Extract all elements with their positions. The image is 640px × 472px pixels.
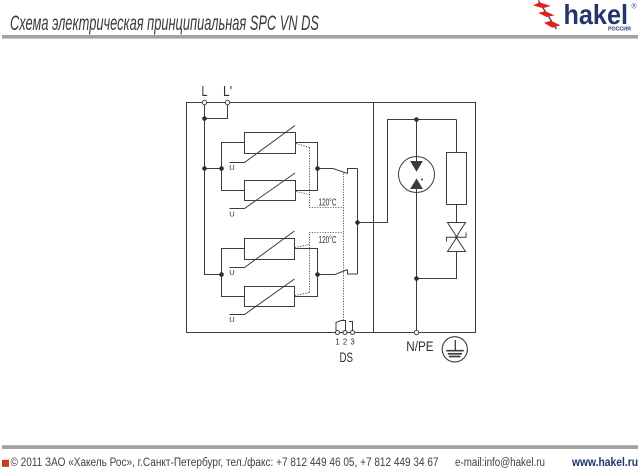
DS pin3 hook	[349, 322, 353, 331]
node switch output	[355, 220, 360, 225]
wire: L bus vertical	[205, 105, 222, 275]
svg-text:L': L'	[223, 84, 232, 100]
gas discharge tube	[399, 120, 435, 193]
dashed: group1 collector	[310, 148, 344, 208]
terminal L'	[225, 100, 229, 104]
thermal switch top blade	[318, 169, 348, 174]
dashed: RU4 stub	[295, 293, 310, 296]
inner divider wire	[373, 103, 375, 333]
node group2 left	[219, 272, 224, 277]
wire: group1 right bracket	[296, 143, 318, 191]
svg-text:U: U	[229, 268, 234, 277]
svg-text:U: U	[229, 315, 234, 324]
svg-text:3: 3	[350, 337, 354, 346]
dashed: RU3 stub	[295, 245, 310, 248]
svg-text:120°C: 120°C	[319, 235, 337, 246]
dashed: RU1 stub	[296, 144, 310, 148]
svg-text:© 2011 ЗАО «Хакель Рос», г.Сан: © 2011 ЗАО «Хакель Рос», г.Санкт-Петербу…	[11, 457, 439, 469]
thermal switch bar	[357, 169, 359, 275]
svg-text:®: ®	[632, 3, 638, 11]
wire: group1 tap	[205, 168, 222, 170]
dashed thermal sensing lines	[295, 144, 344, 321]
terminal circles	[202, 100, 418, 334]
thermal switch bottom contact	[348, 270, 358, 275]
terminal L	[202, 100, 206, 104]
svg-text:Схема электрическая принципиал: Схема электрическая принципиальная SPC V…	[10, 12, 319, 35]
wire: group2 left bracket	[222, 249, 245, 297]
wire: L' drop	[205, 105, 228, 119]
varistor RU1	[230, 126, 296, 163]
resistor	[447, 153, 467, 205]
wire: TVS to GDT branch	[417, 252, 457, 279]
node group1 left	[219, 166, 224, 171]
DS pin1 bracket	[336, 321, 346, 331]
terminal N/PE	[414, 330, 418, 334]
header separator bar	[2, 35, 638, 39]
wire: group2 right bracket	[295, 249, 318, 297]
DS pin 3	[351, 331, 355, 335]
thermal switch bottom blade	[318, 270, 348, 275]
svg-text:DS: DS	[339, 350, 353, 365]
enclosure box	[187, 103, 476, 333]
wire: group1 left bracket	[222, 143, 245, 191]
node GDT top	[414, 117, 419, 122]
footer red square	[2, 460, 9, 467]
node group1 right	[315, 166, 320, 171]
DS pin 1	[336, 331, 340, 335]
thermal switch top contact	[348, 169, 358, 174]
hakel logo bolt spine	[538, 1, 556, 30]
varistor RU2	[230, 173, 296, 209]
svg-text:U: U	[229, 209, 234, 218]
wire: resistor top lead	[456, 120, 458, 153]
svg-text:U: U	[229, 163, 234, 172]
footer separator bar	[2, 445, 638, 449]
svg-text:РОССИЯ: РОССИЯ	[608, 26, 631, 32]
svg-text:e-mail:info@hakel.ru: e-mail:info@hakel.ru	[455, 457, 545, 469]
svg-text:2: 2	[343, 337, 347, 346]
wire: GDT down to N/PE	[416, 189, 418, 331]
protective earth symbol	[442, 337, 467, 362]
node TVS return	[414, 276, 419, 281]
wire: resistor bottom lead	[456, 205, 458, 224]
dashed: RU2 stub	[296, 192, 310, 195]
node group2 right	[315, 272, 320, 277]
dashed: sensing line to DS	[343, 174, 345, 321]
svg-text:1: 1	[335, 337, 339, 346]
DS pin 2	[343, 331, 347, 335]
junction dots	[202, 116, 419, 281]
varistor RU4	[230, 279, 295, 315]
wire: switch output to right circuit	[358, 120, 457, 223]
svg-text:www.hakel.ru: www.hakel.ru	[571, 457, 638, 469]
svg-text:N/PE: N/PE	[406, 339, 433, 354]
hakel logo lightning bolt	[533, 2, 560, 27]
node L-L' junction	[202, 116, 207, 121]
dashed: group2 collector	[310, 233, 344, 293]
svg-text:120°C: 120°C	[319, 198, 337, 209]
schematic labels	[202, 84, 434, 365]
svg-text:L: L	[202, 84, 208, 100]
TVS bidirectional suppressor	[447, 223, 467, 252]
varistor RU3	[230, 231, 295, 268]
node bus group1 tap	[202, 166, 207, 171]
